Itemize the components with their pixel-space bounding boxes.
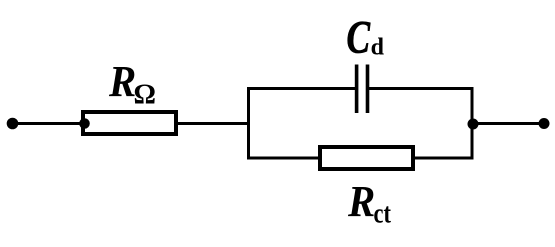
resistor R_ohm body [83,112,176,134]
wire bottom branch right segment [413,157,474,160]
wire right lead [473,122,544,125]
capacitor C_d left plate [355,65,359,114]
right terminal dot [539,118,550,129]
wire top branch right segment [369,87,474,90]
svg-text:Ω: Ω [134,79,156,110]
svg-text:R: R [347,177,375,226]
wire left vertical bar of parallel block [247,87,250,160]
resistor R_ct body [320,147,413,169]
wire bottom branch left segment [247,157,320,160]
wire left lead [13,122,85,125]
capacitor C_d right plate [366,65,370,114]
left terminal dot [7,118,19,130]
wire from R_ohm to parallel block [178,122,250,125]
node A junction dot [79,118,90,129]
svg-text:d: d [371,34,385,60]
wire right vertical bar of parallel block [471,87,474,160]
svg-text:C: C [347,11,372,63]
wire top branch left segment [247,87,356,90]
node B junction dot [468,119,479,130]
svg-text:R: R [108,58,136,107]
svg-text:ct: ct [374,198,392,229]
